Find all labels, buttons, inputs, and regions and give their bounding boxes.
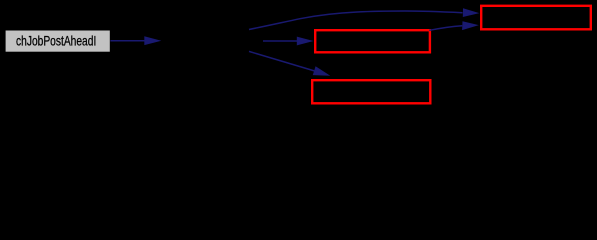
red box middle [315, 30, 430, 52]
svg-text:chJobPostAheadI: chJobPostAheadI [16, 34, 96, 49]
edge middle node to red box bottom [249, 51, 330, 75]
edge chJobPostAheadI to middle node [110, 36, 161, 45]
edge red box middle to red box top-right [429, 21, 479, 30]
edge middle node to red box middle [263, 37, 314, 46]
red box bottom [312, 80, 430, 103]
node chJobPostAheadI [6, 31, 110, 52]
edge middle node to red box top-right [249, 8, 479, 29]
red box top-right [481, 6, 591, 30]
